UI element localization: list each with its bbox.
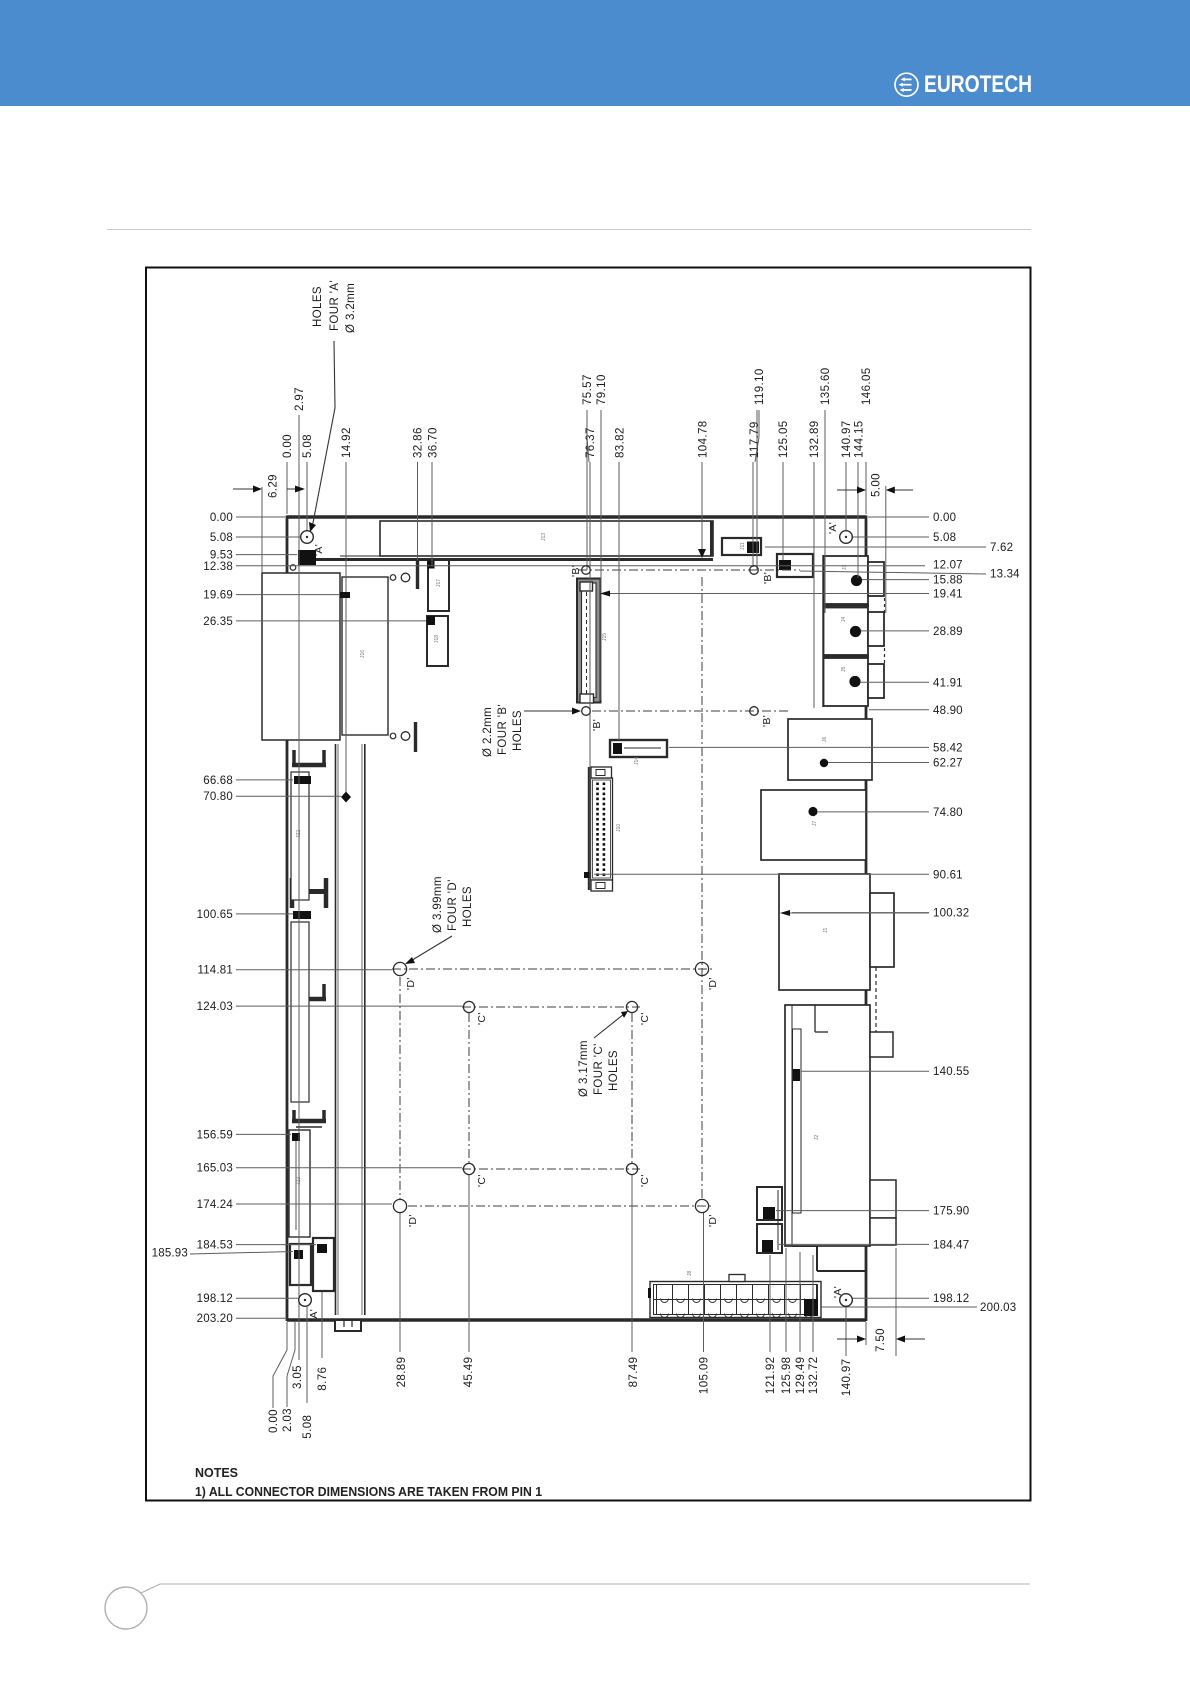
svg-text:19.41: 19.41 bbox=[933, 589, 963, 601]
svg-text:J10: J10 bbox=[616, 824, 622, 832]
svg-text:66.68: 66.68 bbox=[203, 775, 233, 787]
svg-text:58.42: 58.42 bbox=[933, 742, 963, 754]
svg-text:121.92: 121.92 bbox=[765, 1357, 777, 1395]
svg-text:'D': 'D' bbox=[707, 1214, 719, 1227]
svg-text:J11: J11 bbox=[740, 542, 746, 550]
svg-text:90.61: 90.61 bbox=[933, 869, 963, 881]
svg-text:104.78: 104.78 bbox=[698, 420, 710, 458]
svg-text:15.88: 15.88 bbox=[933, 575, 963, 587]
svg-text:'D': 'D' bbox=[707, 977, 719, 990]
svg-text:Ø 3.17mm: Ø 3.17mm bbox=[578, 1040, 590, 1097]
svg-text:114.81: 114.81 bbox=[197, 965, 233, 977]
svg-text:140.55: 140.55 bbox=[933, 1066, 969, 1078]
svg-text:28.89: 28.89 bbox=[396, 1357, 408, 1388]
svg-text:J18: J18 bbox=[434, 635, 440, 643]
svg-text:26.35: 26.35 bbox=[203, 616, 233, 628]
svg-text:J14: J14 bbox=[634, 757, 640, 765]
svg-text:'A': 'A' bbox=[832, 1286, 844, 1298]
svg-text:12.07: 12.07 bbox=[933, 560, 963, 572]
svg-text:174.24: 174.24 bbox=[197, 1199, 234, 1211]
svg-text:'A': 'A' bbox=[313, 544, 325, 556]
svg-text:J8: J8 bbox=[687, 1271, 693, 1277]
svg-text:'D': 'D' bbox=[405, 977, 417, 990]
svg-text:5.08: 5.08 bbox=[933, 532, 956, 544]
svg-text:HOLES: HOLES bbox=[462, 886, 474, 927]
svg-text:5.08: 5.08 bbox=[210, 532, 233, 544]
svg-text:185.93: 185.93 bbox=[152, 1248, 188, 1260]
svg-text:184.53: 184.53 bbox=[197, 1240, 233, 1252]
svg-text:119.10: 119.10 bbox=[754, 368, 766, 405]
svg-text:J3: J3 bbox=[842, 565, 848, 571]
svg-text:2.97: 2.97 bbox=[294, 387, 306, 411]
svg-text:13.34: 13.34 bbox=[990, 569, 1020, 581]
svg-text:41.91: 41.91 bbox=[933, 677, 963, 689]
svg-text:Ø 3.99mm: Ø 3.99mm bbox=[432, 876, 444, 933]
svg-text:'B': 'B' bbox=[570, 565, 582, 577]
svg-text:125.05: 125.05 bbox=[778, 420, 790, 458]
svg-text:Ø 3.2mm: Ø 3.2mm bbox=[345, 283, 357, 333]
svg-text:J1: J1 bbox=[823, 928, 829, 934]
svg-text:105.09: 105.09 bbox=[699, 1357, 711, 1395]
svg-text:175.90: 175.90 bbox=[933, 1206, 969, 1218]
svg-text:132.72: 132.72 bbox=[808, 1357, 820, 1395]
svg-text:J2: J2 bbox=[814, 1135, 820, 1141]
svg-text:129.49: 129.49 bbox=[795, 1357, 807, 1395]
svg-text:75.57: 75.57 bbox=[582, 374, 594, 405]
svg-text:FOUR 'C': FOUR 'C' bbox=[593, 1043, 605, 1095]
svg-text:124.03: 124.03 bbox=[197, 1001, 233, 1013]
svg-text:0.00: 0.00 bbox=[210, 512, 233, 524]
svg-text:3.05: 3.05 bbox=[292, 1365, 304, 1389]
svg-text:J4: J4 bbox=[841, 617, 847, 623]
svg-text:5.08: 5.08 bbox=[302, 434, 314, 458]
svg-text:9.53: 9.53 bbox=[210, 550, 233, 562]
svg-text:1) ALL CONNECTOR DIMENSIONS AR: 1) ALL CONNECTOR DIMENSIONS ARE TAKEN FR… bbox=[195, 1484, 542, 1499]
svg-text:J6: J6 bbox=[822, 737, 828, 743]
svg-text:140.97: 140.97 bbox=[841, 420, 853, 458]
svg-text:8.76: 8.76 bbox=[317, 1367, 329, 1391]
svg-text:146.05: 146.05 bbox=[861, 367, 873, 405]
svg-text:132.89: 132.89 bbox=[809, 420, 821, 458]
svg-text:48.90: 48.90 bbox=[933, 705, 963, 717]
svg-text:5.08: 5.08 bbox=[302, 1415, 314, 1439]
svg-text:87.49: 87.49 bbox=[628, 1357, 640, 1388]
svg-text:J23: J23 bbox=[296, 1177, 302, 1185]
svg-text:165.03: 165.03 bbox=[197, 1163, 233, 1175]
svg-text:EUROTECH: EUROTECH bbox=[924, 71, 1032, 98]
svg-text:6.29: 6.29 bbox=[268, 474, 280, 498]
svg-text:70.80: 70.80 bbox=[203, 791, 233, 803]
svg-text:J7: J7 bbox=[812, 821, 818, 827]
svg-text:J15: J15 bbox=[602, 633, 608, 641]
svg-text:NOTES: NOTES bbox=[195, 1465, 238, 1480]
svg-text:'C': 'C' bbox=[476, 1012, 488, 1025]
svg-text:100.32: 100.32 bbox=[933, 908, 969, 920]
svg-text:12.38: 12.38 bbox=[203, 561, 233, 573]
svg-text:144.15: 144.15 bbox=[854, 420, 866, 458]
svg-text:FOUR 'B': FOUR 'B' bbox=[497, 704, 509, 755]
svg-text:J17: J17 bbox=[436, 579, 442, 587]
svg-text:'B': 'B' bbox=[761, 715, 773, 727]
svg-text:'C': 'C' bbox=[639, 1012, 651, 1025]
svg-text:7.50: 7.50 bbox=[875, 1328, 887, 1352]
svg-text:0.00: 0.00 bbox=[933, 512, 956, 524]
svg-text:135.60: 135.60 bbox=[820, 367, 832, 405]
svg-text:156.59: 156.59 bbox=[197, 1129, 233, 1141]
svg-text:140.97: 140.97 bbox=[841, 1359, 853, 1397]
svg-text:'A': 'A' bbox=[827, 522, 839, 534]
svg-text:FOUR 'D': FOUR 'D' bbox=[447, 879, 459, 931]
svg-text:83.82: 83.82 bbox=[614, 427, 626, 458]
svg-text:19.69: 19.69 bbox=[203, 590, 233, 602]
svg-text:HOLES: HOLES bbox=[608, 1050, 620, 1091]
svg-text:'A': 'A' bbox=[308, 1309, 320, 1321]
svg-text:J5: J5 bbox=[841, 667, 847, 673]
svg-text:Ø 2.2mm: Ø 2.2mm bbox=[482, 707, 494, 757]
svg-text:125.98: 125.98 bbox=[781, 1357, 793, 1395]
svg-text:200.03: 200.03 bbox=[980, 1302, 1016, 1314]
svg-text:100.65: 100.65 bbox=[197, 909, 233, 921]
svg-text:'B': 'B' bbox=[762, 572, 774, 584]
svg-text:45.49: 45.49 bbox=[463, 1357, 475, 1388]
svg-text:2.03: 2.03 bbox=[282, 1408, 294, 1432]
svg-text:28.89: 28.89 bbox=[933, 626, 963, 638]
svg-text:J16: J16 bbox=[360, 650, 366, 658]
svg-text:0.00: 0.00 bbox=[282, 434, 294, 458]
svg-text:7.62: 7.62 bbox=[990, 542, 1013, 554]
svg-text:'C': 'C' bbox=[639, 1174, 651, 1187]
svg-text:198.12: 198.12 bbox=[933, 1293, 969, 1305]
svg-text:FOUR 'A': FOUR 'A' bbox=[329, 280, 341, 331]
svg-text:184.47: 184.47 bbox=[933, 1239, 969, 1251]
svg-text:J22: J22 bbox=[296, 830, 302, 838]
svg-text:'B': 'B' bbox=[591, 719, 603, 731]
svg-text:62.27: 62.27 bbox=[933, 758, 963, 770]
svg-text:'C': 'C' bbox=[476, 1174, 488, 1187]
svg-text:74.80: 74.80 bbox=[933, 807, 963, 819]
svg-text:0.00: 0.00 bbox=[268, 1409, 280, 1433]
svg-text:5.00: 5.00 bbox=[871, 473, 883, 497]
svg-text:14.92: 14.92 bbox=[341, 427, 353, 458]
svg-text:198.12: 198.12 bbox=[197, 1293, 233, 1305]
svg-text:79.10: 79.10 bbox=[596, 374, 608, 405]
svg-text:203.20: 203.20 bbox=[197, 1313, 233, 1325]
svg-text:HOLES: HOLES bbox=[512, 710, 524, 751]
svg-text:'D': 'D' bbox=[407, 1214, 419, 1227]
svg-text:32.86: 32.86 bbox=[412, 427, 424, 458]
svg-text:HOLES: HOLES bbox=[312, 286, 324, 327]
svg-text:J13: J13 bbox=[541, 533, 547, 541]
svg-text:36.70: 36.70 bbox=[428, 427, 440, 458]
